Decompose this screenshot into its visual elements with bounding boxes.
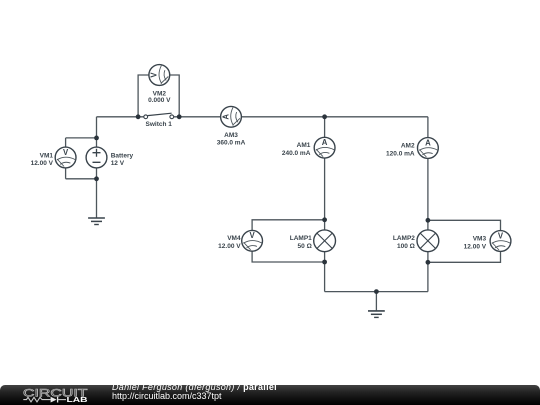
label VM4 [218,235,241,250]
svg-text:VM1: VM1 [40,152,54,159]
node: VM4 top junction [322,217,327,222]
label AM1 [282,142,311,157]
wire: VM1 top horizontal [66,137,97,139]
svg-text:12 V: 12 V [111,160,125,167]
node: AM1 branch junction [322,114,327,119]
wire: VM4 top [252,220,325,231]
battery V1 [86,147,107,168]
voltmeter VM1 [55,147,76,168]
ammeter AM2 [418,138,439,159]
footer text [112,383,277,402]
node: VM4 bottom junction [322,260,327,265]
wire: AM1 to LAMP1 [324,158,326,230]
svg-text:AM2: AM2 [401,142,415,149]
label VM2 [148,91,171,104]
wire: VM3 top [428,220,501,230]
svg-text:100 Ω: 100 Ω [397,243,415,250]
voltmeter VM4 [242,230,263,251]
ammeter AM1 [314,137,335,158]
wire: left vertical battery top [96,117,98,147]
lamp LAMP2 [417,230,439,252]
svg-text:Battery: Battery [111,152,134,159]
svg-text:120.0 mA: 120.0 mA [386,150,415,157]
label VM1 [31,152,54,167]
wire: LAMP2 bottom vertical [427,252,429,292]
CircuitLab logo [0,385,100,405]
node: VM3 top junction [426,218,431,223]
wire: AM1 branch top [324,117,326,137]
svg-text:50 Ω: 50 Ω [298,243,312,250]
wire: battery bottom to ground [96,168,98,218]
wire: VM2 left leg [138,75,149,117]
node: VM1 top junction [94,136,99,141]
wire: switch to AM3 [174,116,221,118]
voltmeter VM2 (rotated) [149,65,170,86]
node: VM2 left junction [136,114,141,119]
node: ground junction [374,289,379,294]
svg-text:LAMP2: LAMP2 [393,235,415,242]
svg-text:AM1: AM1 [297,142,311,149]
lamp LAMP1 [314,230,336,252]
svg-text:240.0 mA: 240.0 mA [282,150,311,157]
wire: ground2 stem [375,292,377,311]
svg-text:LAMP1: LAMP1 [290,235,312,242]
svg-text:Switch 1: Switch 1 [146,121,173,128]
wire: AM2 branch top [427,117,429,138]
wire: VM4 bottom [252,251,325,262]
svg-text:12.00 V: 12.00 V [31,160,54,167]
label LAMP2 [393,235,415,250]
label LAMP1 [290,235,312,250]
svg-text:LAB: LAB [67,395,89,404]
wire: VM1 top vertical [65,138,67,147]
voltmeter VM3 [490,231,511,252]
footer bar [0,385,540,405]
wire: VM3 bottom [428,251,501,262]
node: VM1 bottom junction [94,176,99,181]
wire: main top left horizontal [97,116,144,118]
ground left [88,218,105,225]
label AM2 [386,142,415,157]
svg-text:0.000 V: 0.000 V [148,97,171,104]
svg-text:VM4: VM4 [227,235,241,242]
svg-text:12.00 V: 12.00 V [464,243,487,250]
wire: VM1 bottom horizontal [66,178,97,180]
wire: LAMP1 bottom vertical [324,252,326,292]
label VM3 [464,235,487,250]
node: VM2 right junction [177,114,182,119]
svg-text:VM3: VM3 [473,235,487,242]
svg-text:12.00 V: 12.00 V [218,243,241,250]
svg-text:360.0 mA: 360.0 mA [217,139,246,146]
wire: AM2 to LAMP2 [427,159,429,230]
ammeter AM3 (rotated) [221,106,242,127]
switch SW1 [144,113,174,119]
wire: VM1 bottom vertical [65,168,67,179]
label Battery [111,152,134,167]
node: VM3 bottom junction [426,260,431,265]
wire: bottom horizontal to ground [325,291,428,293]
ground bottom [368,311,385,318]
svg-text:AM3: AM3 [224,132,238,139]
label AM3 [217,132,246,147]
wire: AM3 to right corner [242,116,428,118]
wire: VM2 right leg [170,75,179,117]
